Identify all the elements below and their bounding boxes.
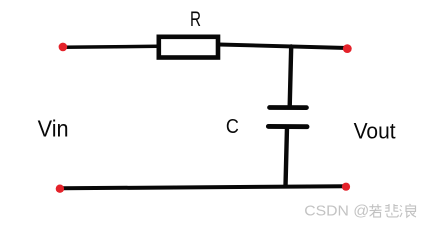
watermark glyph 浪: [400, 204, 416, 217]
node: top-left terminal (red dot): [59, 43, 68, 52]
wire: bottom rail: [62, 186, 345, 188]
watermark glyph 悲: [385, 204, 399, 217]
svg-text:Vin: Vin: [38, 116, 69, 142]
svg-text:CSDN @: CSDN @: [304, 203, 369, 220]
resistor R: [159, 37, 218, 58]
wire: vertical from top node down to capacitor: [290, 47, 292, 107]
svg-text:R: R: [190, 8, 201, 31]
node: bottom-right terminal (red dot): [342, 183, 350, 191]
svg-text:C: C: [226, 115, 239, 138]
capacitor C top plate: [270, 105, 307, 110]
watermark glyph 若: [369, 204, 381, 217]
node: top-right terminal (red dot): [343, 44, 352, 53]
wire: vertical from capacitor down to bottom rail: [286, 127, 288, 186]
wire: top-left from Vin node to resistor: [63, 46, 158, 47]
capacitor C bottom plate: [268, 124, 307, 129]
node: bottom-left terminal (red dot): [56, 185, 64, 193]
wire: resistor to Vout node (through node junction): [219, 45, 347, 49]
svg-text:Vout: Vout: [354, 119, 397, 144]
